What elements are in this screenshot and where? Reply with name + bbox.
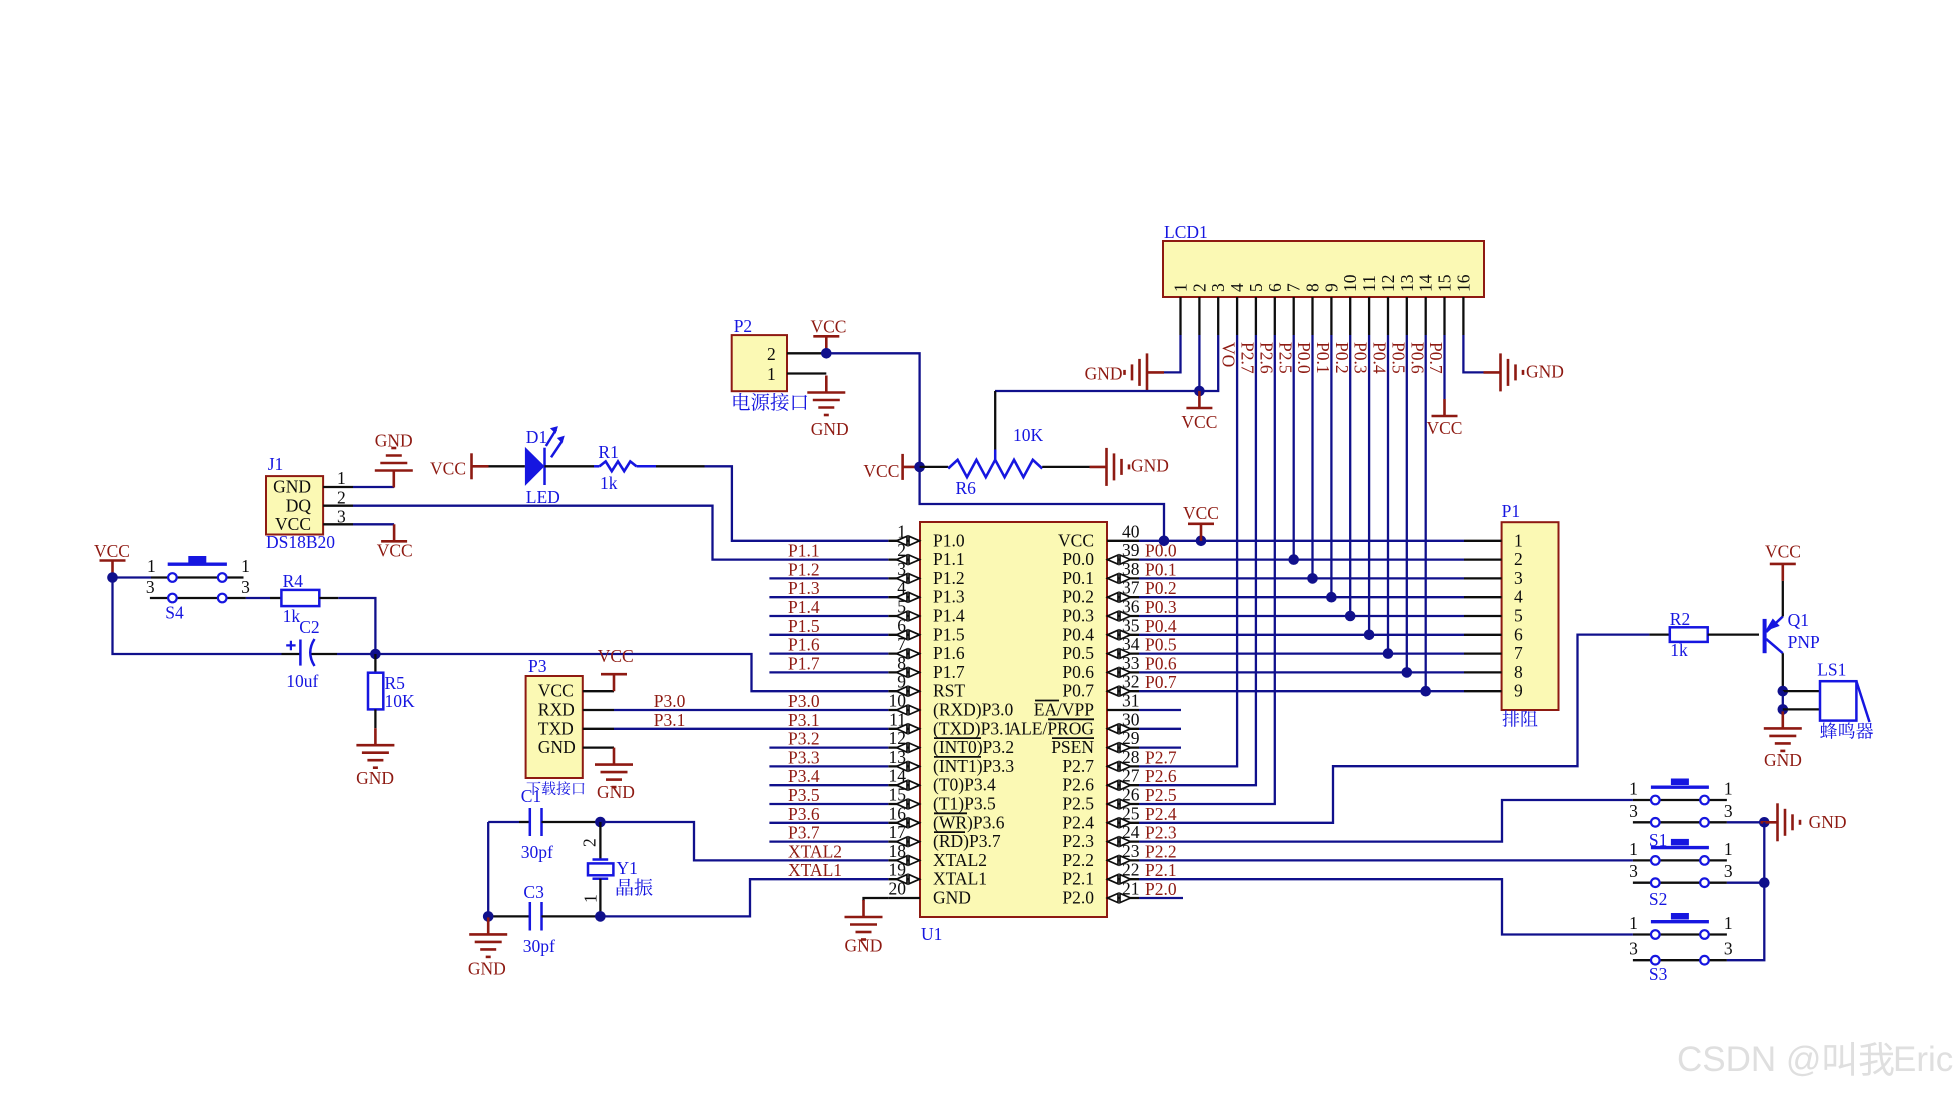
wire R1 to U1 P1.0	[705, 466, 889, 541]
net labels left of U1	[788, 541, 842, 881]
svg-text:P3.1: P3.1	[788, 710, 820, 730]
VCC symbol above P2 pin2	[811, 317, 847, 354]
svg-text:P2: P2	[734, 316, 752, 336]
svg-text:P1.7: P1.7	[788, 653, 820, 673]
svg-text:P0.1: P0.1	[1145, 559, 1177, 579]
svg-text:P2.3: P2.3	[1062, 831, 1094, 851]
P1 pin stubs	[1464, 541, 1502, 691]
svg-text:CSDN @: CSDN @	[1677, 1040, 1821, 1079]
watermark CSDN	[1677, 1040, 1953, 1079]
svg-text:GND: GND	[1764, 750, 1802, 770]
svg-text:Eric: Eric	[1893, 1040, 1953, 1079]
svg-text:P2.0: P2.0	[1145, 879, 1177, 899]
junction under VCC	[107, 572, 118, 583]
svg-text:8: 8	[1303, 283, 1323, 292]
junction ground rail at S1	[1759, 817, 1770, 828]
svg-text:1k: 1k	[1670, 640, 1688, 660]
svg-text:1: 1	[1724, 779, 1733, 799]
wire J1 pin1 to GND	[353, 486, 394, 488]
svg-text:GND: GND	[273, 477, 311, 497]
wire P2.4 to R2	[1139, 635, 1649, 823]
svg-text:DS18B20: DS18B20	[266, 532, 335, 552]
svg-text:P3.0: P3.0	[654, 691, 686, 711]
push button S4	[146, 556, 250, 623]
svg-text:R2: R2	[1670, 609, 1690, 629]
svg-text:P1: P1	[1502, 501, 1520, 521]
wire LCD pin1 to GND	[1164, 335, 1181, 372]
svg-text:VO: VO	[1219, 342, 1239, 367]
svg-text:TXD: TXD	[538, 718, 574, 738]
label crystal (jingzhen)	[617, 879, 633, 896]
svg-text:LS1: LS1	[1817, 660, 1846, 680]
label paizu (resistor network)	[1503, 710, 1520, 726]
buzzer LS1	[1817, 660, 1869, 723]
junction on R6 VCC feed	[914, 462, 925, 473]
svg-text:P0.7: P0.7	[1426, 342, 1446, 374]
svg-text:DQ: DQ	[286, 496, 312, 516]
ground symbol left of LCD	[1085, 353, 1164, 391]
wire J1 pin2 DQ to U1 P1.1	[353, 506, 888, 560]
svg-text:S3: S3	[1649, 964, 1668, 984]
wire LCD pin3 VO to R6 wiper	[995, 335, 1218, 391]
svg-text:P2.5: P2.5	[1275, 342, 1295, 374]
svg-text:P2.1: P2.1	[1062, 869, 1094, 889]
svg-text:1: 1	[1724, 913, 1733, 933]
svg-text:(TXD)P3.1: (TXD)P3.1	[933, 718, 1012, 738]
svg-text:1: 1	[1724, 839, 1733, 859]
svg-text:VCC: VCC	[1181, 412, 1217, 432]
P2 pin stubs	[787, 353, 826, 373]
svg-text:3: 3	[1724, 801, 1733, 821]
wire VCC branch down to C2	[113, 578, 282, 655]
svg-text:GND: GND	[1131, 456, 1169, 476]
svg-text:11: 11	[1359, 275, 1379, 292]
svg-text:VCC: VCC	[598, 646, 634, 666]
svg-text:P1.3: P1.3	[788, 578, 820, 598]
svg-text:P2.7: P2.7	[1238, 342, 1258, 374]
resistor network P1 body	[1502, 501, 1559, 710]
ground symbol under P3	[595, 748, 635, 802]
svg-text:P1.2: P1.2	[788, 559, 820, 579]
svg-text:3: 3	[146, 577, 155, 597]
svg-text:GND: GND	[1809, 812, 1847, 832]
push button S3	[1629, 913, 1733, 984]
junction RST node	[370, 649, 381, 660]
svg-text:R6: R6	[956, 478, 977, 498]
svg-text:9: 9	[1514, 681, 1523, 701]
svg-text:10K: 10K	[385, 691, 416, 711]
svg-text:13: 13	[1397, 274, 1417, 292]
svg-text:P0.1: P0.1	[1062, 568, 1094, 588]
svg-text:P0.3: P0.3	[1145, 597, 1177, 617]
svg-text:P1.5: P1.5	[933, 624, 965, 644]
svg-text:P2.7: P2.7	[1145, 747, 1177, 767]
wire S4 pin3 to R4	[246, 597, 270, 599]
wire R4 to RST node	[338, 598, 375, 654]
svg-text:VCC: VCC	[1765, 542, 1801, 562]
svg-text:(RD)P3.7: (RD)P3.7	[933, 831, 1001, 851]
svg-text:5: 5	[1514, 606, 1523, 626]
svg-text:8: 8	[1514, 662, 1523, 682]
VCC symbol above pin40 row	[1183, 503, 1219, 541]
wire P2.3 to S1	[1139, 800, 1633, 842]
svg-text:P1.6: P1.6	[788, 635, 820, 655]
capacitor C2 polarized	[282, 617, 338, 691]
svg-text:GND: GND	[468, 959, 506, 979]
svg-text:P0.1: P0.1	[1313, 342, 1333, 374]
svg-text:P3.7: P3.7	[788, 823, 820, 843]
svg-text:P2.2: P2.2	[1062, 850, 1094, 870]
svg-text:P3.2: P3.2	[788, 729, 820, 749]
svg-text:P2.6: P2.6	[1145, 766, 1177, 786]
U1 pin names	[933, 530, 1094, 907]
svg-text:VCC: VCC	[811, 317, 847, 337]
U1 pin stubs and I/O arrows	[888, 536, 1139, 902]
svg-text:P0.3: P0.3	[1062, 606, 1094, 626]
R6 right lead to ground	[1042, 466, 1089, 468]
svg-text:3: 3	[1208, 283, 1228, 292]
svg-text:P0.2: P0.2	[1145, 578, 1177, 598]
svg-text:(WR)P3.6: (WR)P3.6	[933, 812, 1005, 832]
svg-text:P2.5: P2.5	[1145, 785, 1177, 805]
junction at P2 pin2	[821, 348, 832, 359]
wire P2.2 to S2	[1139, 859, 1633, 861]
svg-text:P3.4: P3.4	[788, 766, 820, 786]
svg-text:7: 7	[1514, 643, 1523, 663]
wire left leg between C1 and C3	[487, 822, 489, 916]
svg-text:P1.5: P1.5	[788, 616, 820, 636]
svg-text:7: 7	[1284, 283, 1304, 292]
svg-text:3: 3	[1724, 939, 1733, 959]
wires LCD pins7-14 data lines down to P0 rows	[1294, 335, 1426, 691]
svg-text:P0.5: P0.5	[1062, 643, 1094, 663]
svg-text:P2.6: P2.6	[1256, 342, 1276, 374]
svg-text:P0.5: P0.5	[1389, 342, 1409, 374]
LCD1 pin stubs	[1181, 297, 1464, 335]
svg-text:U1: U1	[921, 924, 942, 944]
svg-text:P0.6: P0.6	[1407, 342, 1427, 374]
svg-text:VCC: VCC	[538, 681, 574, 701]
svg-text:XTAL2: XTAL2	[933, 850, 987, 870]
svg-text:R5: R5	[385, 673, 406, 693]
junction at LCD VCC	[1194, 386, 1205, 397]
svg-text:GND: GND	[1526, 362, 1564, 382]
potentiometer R6	[920, 425, 1044, 498]
svg-text:P0.3: P0.3	[1351, 342, 1371, 374]
resistor R2	[1649, 609, 1759, 660]
svg-text:1: 1	[1629, 913, 1638, 933]
junctions of data lines on P0 rows	[1288, 554, 1431, 696]
svg-text:2: 2	[1514, 549, 1523, 569]
ground symbol under U1	[845, 900, 883, 956]
wires: stub nets EA, ALE, PSEN, P2.0	[1139, 710, 1183, 898]
junction C3 left	[483, 911, 494, 922]
resistor R1	[545, 442, 705, 493]
svg-text:1: 1	[767, 364, 776, 384]
svg-text:3: 3	[1514, 568, 1523, 588]
svg-text:3: 3	[1629, 939, 1638, 959]
svg-text:P1.1: P1.1	[933, 549, 965, 569]
svg-text:9: 9	[1321, 283, 1341, 292]
svg-text:4: 4	[1227, 283, 1247, 292]
svg-text:VCC: VCC	[1058, 530, 1094, 550]
svg-text:P1.4: P1.4	[788, 597, 820, 617]
svg-text:3: 3	[1629, 801, 1638, 821]
LED D1	[489, 426, 565, 507]
svg-text:R4: R4	[283, 571, 304, 591]
svg-text:GND: GND	[811, 419, 849, 439]
svg-text:P0.0: P0.0	[1294, 342, 1314, 374]
svg-text:P1.4: P1.4	[933, 606, 965, 626]
wire LCD pin2 to VCC junction	[1198, 335, 1200, 391]
svg-text:P0.6: P0.6	[1062, 662, 1094, 682]
svg-text:P2.4: P2.4	[1145, 804, 1177, 824]
connector P2 body	[732, 316, 787, 391]
svg-text:P0.0: P0.0	[1062, 549, 1094, 569]
wire RST node to U1 RST pin	[337, 654, 888, 691]
wire LCD pin16 to GND	[1463, 335, 1483, 372]
svg-text:1: 1	[241, 556, 250, 576]
svg-text:R1: R1	[598, 442, 618, 462]
wire S2 pin3 to ground rail	[1727, 882, 1764, 884]
svg-text:(RXD)P3.0: (RXD)P3.0	[933, 700, 1013, 720]
net labels right of U1	[1145, 541, 1177, 899]
J1 pin numbers	[337, 468, 346, 527]
svg-text:12: 12	[1378, 275, 1398, 293]
svg-text:5: 5	[1246, 283, 1266, 292]
junction ground rail at S2	[1759, 877, 1770, 888]
wires: stub nets P3.2-P3.7	[769, 748, 888, 842]
svg-text:14: 14	[1416, 274, 1436, 292]
ground symbol right of LCD	[1484, 353, 1564, 391]
svg-text:30pf: 30pf	[521, 842, 553, 862]
svg-text:30pf: 30pf	[523, 936, 555, 956]
svg-text:P0.4: P0.4	[1145, 616, 1177, 636]
wire P3 TXD to U1 P3.1	[614, 728, 888, 730]
wire XTAL1 to U1	[600, 879, 888, 916]
wire J1 pin3 to VCC	[353, 523, 394, 525]
svg-text:2: 2	[1189, 283, 1209, 292]
MCU U1 body	[920, 522, 1107, 944]
svg-text:C2: C2	[299, 617, 319, 637]
wire VCC to S4 pin1	[113, 576, 152, 578]
svg-text:P0.5: P0.5	[1145, 635, 1177, 655]
svg-text:GND: GND	[933, 888, 971, 908]
ground symbol under buzzer	[1764, 711, 1802, 770]
svg-text:Q1: Q1	[1788, 610, 1809, 630]
svg-text:P3.6: P3.6	[788, 804, 820, 824]
svg-text:P0.7: P0.7	[1145, 672, 1177, 692]
junction crystal bottom	[595, 911, 606, 922]
svg-text:XTAL2: XTAL2	[788, 841, 842, 861]
svg-text:2: 2	[337, 488, 346, 508]
wire P3 RXD to U1 P3.0	[614, 709, 888, 711]
wire LCD pin6 P2.5 to U1	[1139, 335, 1275, 804]
wire U1 GND pin20	[864, 898, 889, 901]
svg-text:GND: GND	[1085, 364, 1123, 384]
svg-text:XTAL1: XTAL1	[933, 869, 987, 889]
svg-text:2: 2	[767, 344, 776, 364]
VCC symbol under LCD pin2	[1181, 391, 1217, 432]
label buzzer (fengmingqi)	[1820, 722, 1837, 739]
svg-text:Y1: Y1	[617, 858, 638, 878]
crystal Y1	[580, 822, 638, 916]
resistor R5	[368, 654, 415, 728]
push button S2	[1629, 839, 1733, 909]
junction VCC row from power feed	[1159, 536, 1170, 547]
svg-text:1: 1	[1514, 530, 1523, 550]
svg-text:P2.0: P2.0	[1062, 888, 1094, 908]
svg-text:VCC: VCC	[275, 514, 311, 534]
svg-text:P2.4: P2.4	[1062, 812, 1094, 832]
svg-text:P3.3: P3.3	[788, 747, 820, 767]
svg-text:PNP: PNP	[1788, 632, 1820, 652]
junction buzzer bottom	[1778, 704, 1789, 715]
svg-text:C3: C3	[523, 882, 544, 902]
svg-text:S4: S4	[165, 603, 184, 623]
P3 pin stubs	[583, 691, 614, 747]
svg-text:2: 2	[580, 838, 600, 847]
svg-text:P1.3: P1.3	[933, 587, 965, 607]
junction buzzer top	[1778, 686, 1789, 697]
wire LCD pin15 to VCC	[1443, 335, 1445, 399]
svg-text:4: 4	[1514, 587, 1523, 607]
svg-text:10K: 10K	[1013, 425, 1044, 445]
svg-text:P3: P3	[528, 656, 547, 676]
connector P3 body	[526, 656, 583, 778]
svg-text:1: 1	[337, 468, 346, 488]
svg-text:S2: S2	[1649, 889, 1667, 909]
svg-text:3: 3	[1629, 861, 1638, 881]
wire Q1 collector to LS1	[1783, 691, 1820, 709]
LCD1 pin numbers	[1171, 274, 1474, 292]
wire C1 top node	[488, 821, 519, 823]
inverted ground symbol above J1	[375, 431, 413, 488]
svg-text:P3.5: P3.5	[788, 785, 820, 805]
wires P0.0-P0.7 rows U1 to P1	[1139, 560, 1464, 692]
svg-text:J1: J1	[268, 454, 284, 474]
svg-text:P0.6: P0.6	[1145, 653, 1177, 673]
ground symbol right of R6	[1090, 448, 1169, 486]
svg-text:P2.1: P2.1	[1145, 860, 1177, 880]
svg-text:1: 1	[1629, 779, 1638, 799]
svg-text:1k: 1k	[600, 473, 618, 493]
svg-text:1k: 1k	[283, 606, 301, 626]
svg-text:1: 1	[147, 556, 156, 576]
transistor Q1 PNP	[1765, 581, 1820, 692]
connector J1 DS18B20 body	[266, 454, 335, 552]
svg-text:VCC: VCC	[94, 541, 130, 561]
svg-text:VCC: VCC	[430, 459, 466, 479]
svg-text:LED: LED	[526, 487, 560, 507]
capacitor C3	[488, 882, 600, 956]
svg-text:3: 3	[1724, 861, 1733, 881]
ground symbol bottom left	[468, 917, 507, 978]
svg-text:16: 16	[1453, 274, 1473, 292]
svg-text:GND: GND	[356, 768, 394, 788]
svg-text:1: 1	[581, 894, 601, 903]
svg-text:P2.5: P2.5	[1062, 794, 1094, 814]
svg-text:P3.1: P3.1	[654, 710, 686, 730]
svg-text:(T1)P3.5: (T1)P3.5	[933, 794, 996, 814]
svg-text:GND: GND	[375, 431, 413, 451]
svg-text:P2.2: P2.2	[1145, 841, 1177, 861]
ground symbol under P2 pin1	[807, 376, 848, 440]
svg-text:LCD1: LCD1	[1164, 222, 1208, 242]
svg-text:PSEN: PSEN	[1051, 737, 1094, 757]
svg-text:(INT1)P3.3: (INT1)P3.3	[933, 756, 1014, 776]
svg-text:D1: D1	[526, 427, 547, 447]
svg-text:(T0)P3.4: (T0)P3.4	[933, 775, 996, 795]
resistor R4	[270, 571, 338, 626]
rotated net labels on LCD wires	[1219, 342, 1447, 374]
svg-text:P2.6: P2.6	[1062, 775, 1094, 795]
VCC symbol under LCD pin15	[1427, 399, 1463, 438]
wire P2.1 to S3	[1139, 879, 1633, 934]
svg-text:(INT0)P3.2: (INT0)P3.2	[933, 737, 1014, 757]
svg-text:GND: GND	[538, 737, 576, 757]
label download port (xiazai jiekou)	[527, 782, 541, 795]
svg-text:EA/VPP: EA/VPP	[1034, 700, 1095, 720]
VCC symbol above P3	[598, 646, 634, 691]
capacitor C1	[519, 786, 600, 862]
svg-text:VCC: VCC	[1183, 503, 1219, 523]
svg-text:P0.2: P0.2	[1332, 342, 1352, 374]
J1 pin stubs	[323, 487, 353, 524]
svg-text:15: 15	[1435, 274, 1455, 292]
svg-text:P3.0: P3.0	[788, 691, 820, 711]
svg-text:GND: GND	[597, 782, 635, 802]
svg-text:P2.7: P2.7	[1062, 756, 1094, 776]
label power connector (dianyuan jiekou)	[733, 393, 749, 410]
svg-text:1: 1	[1629, 839, 1638, 859]
svg-text:P1.7: P1.7	[933, 662, 965, 682]
svg-text:10uf: 10uf	[286, 671, 318, 691]
svg-text:P1.6: P1.6	[933, 643, 965, 663]
VCC symbol above Q1	[1765, 542, 1801, 581]
wire VCC row pin40 to P1 pin1	[1139, 540, 1464, 542]
svg-text:P1.1: P1.1	[788, 541, 820, 561]
wire LCD pin4 P2.7 to U1	[1139, 335, 1237, 766]
svg-text:C1: C1	[521, 786, 541, 806]
push button S1	[1629, 779, 1733, 851]
svg-text:XTAL1: XTAL1	[788, 860, 842, 880]
svg-text:VCC: VCC	[863, 461, 899, 481]
P1 pin numbers	[1514, 530, 1523, 700]
svg-text:40: 40	[1122, 521, 1140, 541]
ground symbol under R5	[356, 728, 394, 788]
wire S1 pin3 to ground rail	[1727, 821, 1764, 823]
svg-text:VCC: VCC	[377, 541, 413, 561]
svg-text:P0.7: P0.7	[1062, 681, 1094, 701]
junction VCC row at VCC symbol	[1196, 536, 1207, 547]
svg-text:GND: GND	[845, 936, 883, 956]
svg-text:1: 1	[1171, 283, 1191, 292]
svg-text:RXD: RXD	[538, 700, 575, 720]
svg-text:P1.2: P1.2	[933, 568, 965, 588]
svg-text:P2.3: P2.3	[1145, 823, 1177, 843]
svg-text:P1.0: P1.0	[933, 530, 965, 550]
svg-text:P0.4: P0.4	[1370, 342, 1390, 374]
svg-text:P0.4: P0.4	[1062, 624, 1094, 644]
wires: stub nets P1.2-P1.7	[769, 578, 888, 672]
VCC symbol top left	[94, 541, 130, 578]
LCD connector LCD1 body	[1163, 222, 1484, 297]
wire LCD pin5 P2.6 to U1	[1139, 335, 1256, 785]
junction crystal top	[595, 817, 606, 828]
svg-text:RST: RST	[933, 681, 965, 701]
svg-text:6: 6	[1514, 624, 1523, 644]
